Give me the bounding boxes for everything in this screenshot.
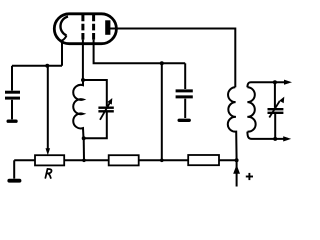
capacitor C1 bottom lead: [11, 100, 13, 120]
tube V1 grid 1 (dashed): [81, 15, 84, 40]
transformer T1 primary (3 loops, bulge left): [228, 87, 237, 160]
node junction dot output bottom: [273, 137, 277, 141]
node A junction dot on cathode rail: [45, 64, 49, 68]
transformer T1 secondary (3 loops, bulge right): [247, 87, 255, 131]
node L1 bottom junction dot: [82, 136, 86, 140]
label +: [246, 176, 253, 178]
capacitor C3 top lead: [184, 63, 186, 89]
resistor R2 box: [109, 155, 139, 165]
node junction dot on bottom rail under L1: [82, 159, 86, 163]
tube V1 grid 2 (dashed): [92, 15, 95, 40]
resistor R3 box: [188, 155, 219, 165]
tube V1 anode bar: [105, 20, 110, 35]
wire bottom rail segment 3: [139, 159, 189, 161]
tube V1 envelope: [54, 14, 116, 44]
node junction dot on bottom rail middle: [160, 159, 164, 163]
arrowhead into potentiometer R: [46, 148, 51, 155]
node junction dot on screen rail: [160, 61, 164, 65]
ground bar under C1: [8, 119, 16, 122]
capacitor C1 top lead: [11, 66, 13, 91]
capacitor C1 plates: [5, 91, 20, 94]
wire middle vertical to bottom rail: [161, 63, 163, 160]
ground symbol bottom left: [13, 160, 15, 178]
wire variable capacitor C2 branch bottom: [84, 113, 107, 139]
wire grid2 lead down and screen rail: [94, 40, 186, 64]
variable capacitor C2 arrow: [100, 103, 110, 120]
variable capacitor C4 arrow: [269, 101, 279, 118]
wire grid1 lead down: [82, 40, 84, 80]
capacitor C3 plates: [176, 89, 193, 92]
wire anode lead to top rail: [110, 29, 235, 88]
label R: [45, 169, 51, 178]
capacitor C3 bottom lead: [184, 99, 186, 118]
node junction dot bottom right: [235, 158, 239, 162]
wire bottom rail segment 1: [14, 159, 35, 161]
wire variable capacitor C4 top lead: [274, 82, 276, 108]
wire + terminal lead: [236, 160, 238, 186]
wire bottom rail segment 4: [219, 159, 237, 161]
wire L1 bottom to bottom rail: [83, 138, 85, 160]
wire variable capacitor C4 bottom lead: [274, 114, 276, 139]
potentiometer R box: [35, 155, 64, 165]
wire secondary top to output: [247, 82, 288, 87]
inductor L1 (3 loops, bulge left): [73, 80, 83, 138]
node L1 top junction dot: [81, 78, 85, 82]
wire secondary bottom to output: [247, 132, 287, 139]
arrowhead output top: [284, 80, 292, 85]
wire variable capacitor C2 branch top: [83, 80, 107, 106]
arrowhead up at + terminal: [233, 165, 240, 174]
tube V1 cathode arc: [60, 17, 68, 36]
variable capacitor C4 plates: [268, 108, 284, 110]
node junction dot output top: [273, 80, 277, 84]
arrowhead output bottom: [283, 136, 291, 141]
wire cathode lead: [62, 36, 67, 66]
wire cathode rail y66: [12, 65, 62, 67]
ground bar under C3: [179, 119, 189, 122]
variable capacitor C2 plates: [98, 106, 113, 108]
wire wiper line down to R: [47, 66, 49, 149]
wire bottom rail segment 2: [64, 159, 109, 161]
